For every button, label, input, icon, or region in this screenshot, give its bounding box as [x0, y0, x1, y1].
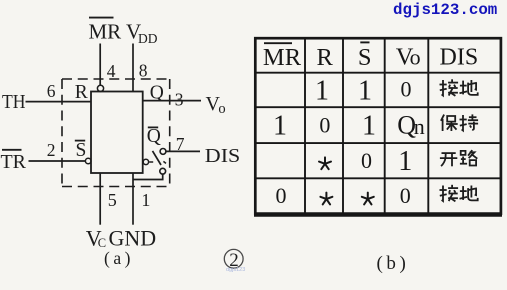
table column separator 3 [384, 38, 386, 214]
flip-flop box U1 [91, 92, 143, 174]
wire pin1 vertical to GND [132, 173, 134, 225]
svg-text:1: 1 [273, 110, 287, 141]
svg-text:1: 1 [141, 190, 150, 210]
package dashed outline right edge [169, 79, 171, 187]
svg-text:(b): (b) [377, 253, 410, 274]
label VC [86, 226, 106, 251]
svg-text:DIS: DIS [205, 145, 241, 167]
switch control dash from bubble [149, 161, 153, 163]
row4 R=star [320, 193, 332, 205]
svg-text:0: 0 [361, 148, 372, 173]
svg-text:5: 5 [108, 190, 117, 210]
svg-text:3: 3 [175, 89, 184, 109]
package dashed outline top edge [62, 78, 170, 80]
svg-text:DD: DD [138, 31, 158, 46]
label MR with overline [89, 18, 122, 44]
row4 DIS text jie-di [440, 185, 478, 202]
svg-text:DIS: DIS [440, 44, 479, 70]
svg-text:2: 2 [47, 140, 56, 160]
svg-text:4: 4 [107, 61, 116, 81]
svg-text:7: 7 [176, 134, 185, 154]
svg-text:dgjs123.com: dgjs123.com [393, 1, 497, 19]
row3 DIS text kai-lu [440, 150, 477, 166]
truth table outer border [255, 38, 501, 213]
wire Q output to pin 3 [143, 100, 201, 102]
svg-text:R: R [317, 44, 334, 71]
table column separator 4 [427, 38, 429, 214]
wire TR input [29, 160, 86, 162]
wire pin8 vertical from VDD [132, 44, 134, 92]
figure number circled 2 [224, 249, 243, 270]
table row line 4 [255, 177, 501, 179]
table header Vo [396, 44, 421, 71]
svg-text:TH: TH [2, 91, 26, 113]
svg-text:Q: Q [150, 83, 164, 104]
label Q-bar output [147, 126, 161, 147]
row2 Vo=Qn [397, 110, 425, 139]
inverting bubble S input [85, 158, 91, 164]
row1 DIS text jie-di [440, 79, 478, 96]
inverting bubble Q-bar output [143, 159, 148, 164]
svg-text:TR: TR [1, 151, 27, 173]
table header MR with overline [263, 43, 302, 71]
wire pin4 vertical from MR [99, 44, 101, 86]
svg-text:6: 6 [47, 81, 56, 101]
row4 S=star [362, 193, 374, 205]
row2 DIS text bao-chi [441, 114, 478, 131]
wire switch to ground net [133, 174, 163, 179]
row3 R=star [319, 157, 331, 169]
label S-bar input [75, 140, 87, 161]
table bottom thick edge [254, 214, 502, 217]
svg-text:1: 1 [315, 75, 329, 106]
package dashed outline left edge [61, 79, 63, 187]
svg-text:o: o [410, 44, 421, 69]
table row line 2 [255, 106, 501, 108]
discharge switch lower contact [160, 168, 166, 174]
svg-text:0: 0 [401, 77, 412, 102]
wire TH input [26, 101, 92, 103]
package dashed outline bottom edge [62, 186, 170, 188]
switch control dot [163, 161, 166, 163]
inverting bubble MR input [97, 85, 103, 91]
svg-text:S: S [76, 140, 87, 161]
svg-text:n: n [414, 114, 425, 139]
svg-text:1: 1 [358, 75, 372, 106]
svg-text:1: 1 [398, 146, 412, 177]
discharge switch arm [153, 151, 162, 165]
svg-text:0: 0 [276, 183, 287, 208]
svg-text:S: S [358, 44, 372, 71]
svg-text:MR: MR [263, 44, 302, 71]
svg-text:0: 0 [400, 183, 411, 208]
label TR with overline [1, 150, 27, 173]
table row line 3 [255, 142, 501, 144]
svg-text:MR: MR [89, 20, 122, 44]
svg-text:0: 0 [319, 112, 330, 137]
table column separator 1 [304, 38, 306, 214]
svg-text:R: R [75, 82, 88, 103]
svg-text:dgjs123: dgjs123 [226, 267, 245, 273]
wire pin7 to DIS [166, 150, 200, 152]
svg-text:1: 1 [362, 110, 376, 141]
table row line 1 [255, 72, 501, 74]
svg-text:Q: Q [147, 126, 161, 147]
table column separator 2 [342, 38, 344, 214]
svg-text:GND: GND [109, 226, 157, 251]
svg-text:8: 8 [139, 61, 148, 81]
wire pin5 vertical to VC [99, 173, 101, 225]
svg-text:(a): (a) [104, 248, 134, 268]
label Vo [206, 93, 226, 117]
svg-text:o: o [218, 101, 225, 117]
label VDD [126, 20, 158, 47]
table header S-bar [358, 42, 372, 71]
discharge switch upper contact [160, 149, 166, 155]
